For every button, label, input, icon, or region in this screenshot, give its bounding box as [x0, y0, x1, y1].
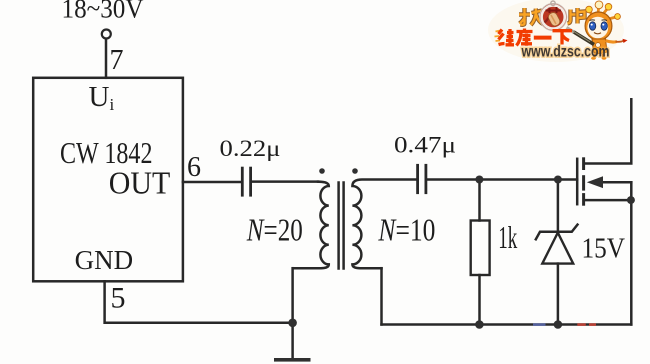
svg-text:0.22μ: 0.22μ — [220, 136, 281, 161]
wire pin6 OUT — [183, 181, 241, 184]
svg-text:0.47μ: 0.47μ — [394, 133, 456, 158]
junction node ground — [288, 319, 297, 328]
watermark speed dashes — [495, 31, 501, 42]
input terminal — [102, 30, 111, 39]
mascot head — [585, 12, 612, 40]
watermark text weiku yixia (red) — [499, 29, 573, 46]
junction node top of VD1 — [554, 176, 562, 184]
resistor R1 1k — [471, 180, 490, 325]
IC U1 CW1842 box — [33, 78, 183, 281]
svg-text:N=20: N=20 — [246, 211, 303, 247]
junction node bottom of R1 — [475, 320, 484, 329]
watermark halo — [488, 0, 624, 62]
wire left bottom rail — [105, 281, 293, 323]
svg-text:15V: 15V — [582, 232, 626, 264]
mascot eyes — [589, 22, 595, 30]
mascot antennae — [590, 7, 617, 19]
transformer T1 core — [337, 183, 340, 269]
wire C2 to gate — [427, 178, 577, 181]
MOSFET Q1 body arrow line — [599, 181, 631, 184]
svg-text:5: 5 — [111, 282, 126, 315]
MOSFET Q1 drain lead — [585, 99, 631, 163]
watermark text zhao (find) glyph — [519, 8, 545, 25]
wire primary bottom drop — [291, 268, 294, 323]
MOSFET Q1 source lead — [585, 199, 631, 202]
wire C1 to transformer — [252, 180, 318, 183]
watermark url www.dzsc.com — [521, 44, 610, 61]
junction node bottom of VD1 — [554, 320, 563, 329]
svg-text:7: 7 — [110, 45, 124, 76]
watermark remnant red dash 2 — [589, 323, 596, 326]
svg-text:6: 6 — [187, 152, 201, 183]
ground stub — [291, 323, 294, 358]
junction node top of R1 — [475, 176, 483, 184]
junction node source — [627, 196, 635, 204]
wire pin7 — [105, 39, 108, 78]
junction dot transformer primary — [319, 168, 325, 174]
watermark remnant blue dash — [533, 323, 546, 326]
MOSFET Q1 gate — [576, 159, 579, 204]
wire source down — [630, 182, 633, 324]
mascot body — [592, 39, 607, 54]
wire right bottom rail — [382, 323, 632, 326]
svg-text:18~30V: 18~30V — [62, 0, 144, 24]
watermark mascot — [567, 1, 628, 60]
zener diode VD1 15V — [536, 180, 578, 325]
svg-text:GND: GND — [75, 245, 134, 275]
mascot feet — [594, 54, 604, 58]
transformer T1 secondary winding — [352, 180, 416, 269]
svg-text:www.dzsc.com: www.dzsc.com — [521, 44, 610, 61]
capacitor C2 0.47u plates — [418, 165, 426, 192]
MOSFET Q1 channel bars — [582, 159, 585, 204]
ground bar — [274, 358, 311, 362]
watermark seal circle with xin — [540, 1, 567, 31]
svg-text:1k: 1k — [498, 219, 517, 255]
junction dot transformer secondary — [352, 168, 358, 174]
MOSFET Q1 arrow head — [587, 176, 603, 188]
mascot mouth — [594, 33, 601, 34]
svg-text:Ui: Ui — [89, 81, 115, 114]
mascot arm and whip — [606, 41, 618, 43]
watermark remnant red dash — [577, 323, 586, 326]
watermark pian glyph — [568, 8, 585, 24]
capacitor C1 0.22u plates — [242, 168, 250, 195]
watermark mascot pen — [573, 32, 594, 45]
transformer T1 primary winding — [293, 182, 329, 269]
watermark logo dzsc — [495, 1, 628, 61]
wire secondary bottom drop — [380, 268, 383, 324]
svg-text:N=10: N=10 — [378, 211, 436, 247]
svg-text:OUT: OUT — [109, 166, 171, 201]
